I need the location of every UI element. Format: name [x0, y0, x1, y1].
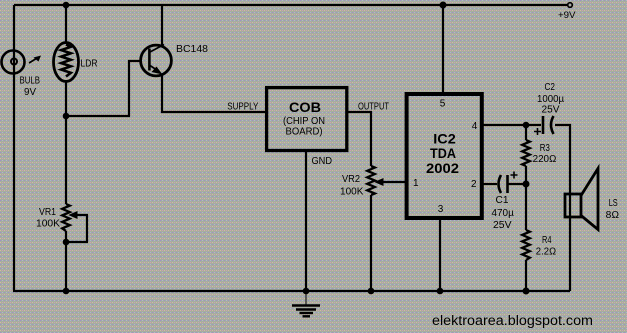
svg-text:GND: GND: [312, 155, 333, 167]
label VR1 100K: [36, 207, 60, 230]
node pin4/R3/C2 junction: [523, 122, 530, 129]
node top pin5 junction: [440, 2, 447, 9]
wire VR2 bottom to rail: [370, 195, 372, 291]
svg-text:2: 2: [471, 179, 477, 190]
capacitor C1: [499, 172, 518, 194]
svg-text:LS: LS: [609, 198, 618, 209]
svg-text:COB: COB: [289, 100, 321, 115]
wire C1 to node B: [507, 183, 526, 185]
node rail VR2: [368, 288, 375, 295]
LDR R1: [54, 43, 79, 82]
wire IC2 pin 5 to rail: [442, 5, 444, 94]
svg-text:R4: R4: [542, 235, 552, 246]
svg-text:elektroarea.blogspot.com: elektroarea.blogspot.com: [432, 313, 593, 328]
wire emitter to COB supply: [162, 75, 266, 113]
capacitor C2: [534, 116, 554, 135]
label COB (CHIP ON BOARD): [283, 100, 325, 138]
wire COB gnd: [305, 151, 307, 291]
node A LDR/base junction: [63, 113, 70, 120]
loudspeaker LS: [565, 169, 598, 230]
wire IC2 pin 2 to C1: [482, 183, 497, 185]
svg-text:+9V: +9V: [558, 10, 576, 21]
svg-text:TDA: TDA: [430, 146, 456, 161]
svg-text:100K: 100K: [340, 187, 364, 198]
terminal +9V: [568, 3, 573, 8]
bulb B1: [2, 51, 42, 74]
op-amp IC2 TDA2002: [407, 94, 482, 218]
svg-text:25V: 25V: [542, 104, 560, 115]
resistor R3: [522, 140, 530, 166]
node top LDR junction: [63, 2, 70, 9]
svg-text:IC2: IC2: [433, 132, 456, 147]
wire R3 top: [525, 125, 527, 140]
svg-text:25V: 25V: [493, 220, 512, 231]
svg-text:4: 4: [472, 121, 478, 132]
node rail VR1: [63, 288, 70, 295]
potentiometer VR1: [62, 204, 87, 242]
svg-text:BOARD): BOARD): [286, 126, 323, 138]
wire IC2 pin 4 to C2: [482, 124, 541, 126]
svg-text:C1: C1: [496, 195, 509, 206]
svg-text:2.2Ω: 2.2Ω: [536, 247, 557, 258]
wire base of Q1: [66, 61, 142, 116]
transistor Q1 BC148: [141, 45, 172, 76]
wire VR1 bottom to rail: [65, 231, 67, 291]
label VR2 100K: [340, 174, 364, 198]
wire LDR bottom to node A: [65, 80, 67, 116]
node rail pin3: [437, 288, 444, 295]
svg-text:C2: C2: [545, 82, 556, 93]
resistor R4: [522, 230, 530, 260]
wire node A to VR1: [65, 116, 67, 204]
svg-text:LDR: LDR: [81, 59, 98, 70]
node rail R4: [523, 288, 530, 295]
label IC2 TDA 2002: [426, 132, 459, 176]
wire bottom rail (ground bus): [13, 290, 570, 292]
label C1 470u 25V: [492, 195, 515, 231]
svg-text:470µ: 470µ: [492, 208, 515, 219]
svg-text:SUPPLY: SUPPLY: [227, 102, 258, 113]
label LS 8ohm: [606, 198, 620, 221]
svg-text:8Ω: 8Ω: [606, 210, 620, 221]
ground: [292, 291, 320, 316]
svg-text:220Ω: 220Ω: [533, 154, 557, 165]
node VR1 wiper junction: [63, 239, 70, 246]
label C2 1000u 25V: [537, 82, 564, 115]
wire R4 bottom to rail: [525, 260, 527, 291]
wire IC2 pin 3 to rail: [439, 218, 441, 291]
node rail ground: [303, 288, 310, 295]
label R3 220ohm: [533, 143, 557, 165]
svg-text:100K: 100K: [36, 219, 60, 230]
svg-text:5: 5: [440, 98, 446, 109]
svg-text:9V: 9V: [24, 87, 36, 98]
wire node B to R4: [525, 184, 527, 230]
wire left vertical (bulb branch): [13, 5, 15, 291]
svg-text:1: 1: [413, 178, 419, 189]
svg-text:VR2: VR2: [342, 174, 360, 185]
svg-text:VR1: VR1: [39, 207, 56, 218]
wire C2 to speaker: [555, 125, 570, 291]
node B C1/R3/R4 junction: [523, 181, 530, 188]
label R4 2.2ohm: [536, 235, 557, 258]
wire collector of Q1: [161, 5, 163, 46]
potentiometer VR2: [367, 166, 383, 195]
svg-text:3: 3: [438, 204, 444, 215]
COB module U1: [267, 88, 347, 151]
svg-text:BULB: BULB: [20, 76, 41, 87]
wire LDR top: [65, 5, 67, 44]
svg-text:R3: R3: [540, 143, 550, 154]
wire COB output to VR2: [348, 112, 371, 166]
svg-text:2002: 2002: [426, 161, 459, 176]
wire top rail +9V: [14, 4, 567, 6]
svg-text:BC148: BC148: [176, 43, 208, 55]
svg-text:OUTPUT: OUTPUT: [358, 102, 389, 113]
label BULB 9V: [20, 76, 41, 99]
wire VR2 wiper to pin 1: [379, 181, 408, 183]
wire R3 bottom to node B: [525, 166, 527, 184]
